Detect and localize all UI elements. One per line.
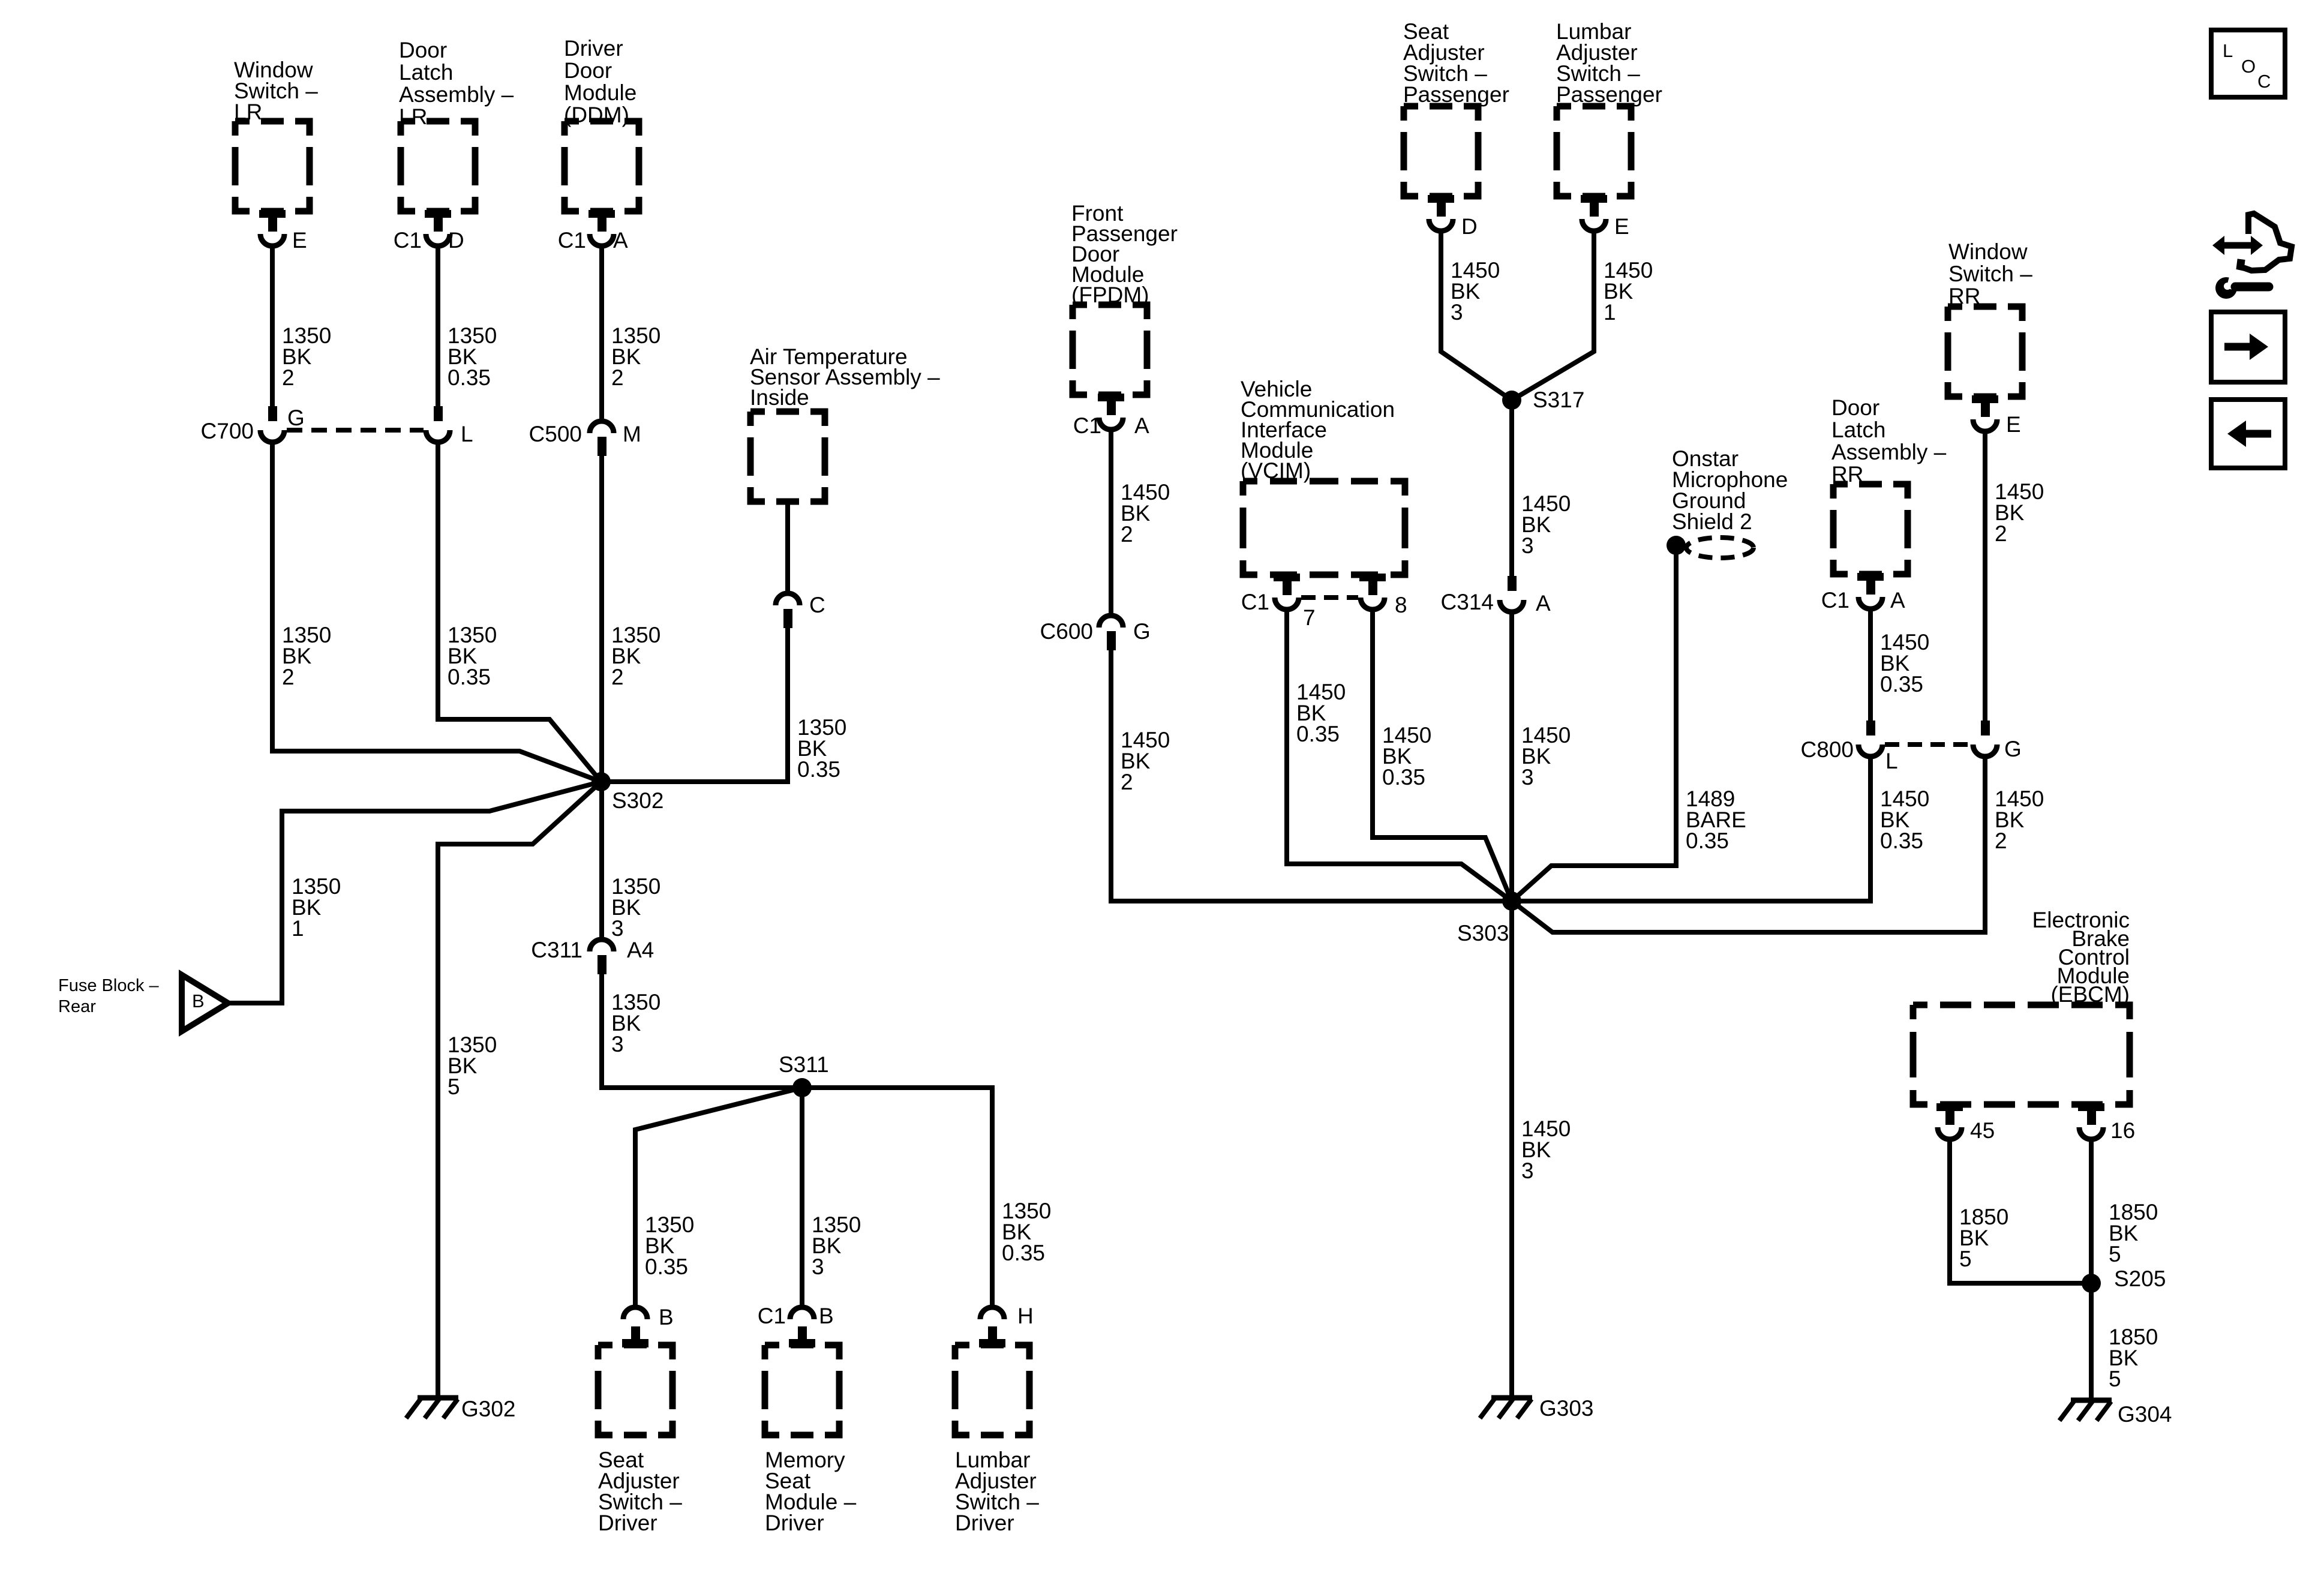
connector C600 G <box>1099 616 1123 628</box>
svg-text:Driver: Driver <box>765 1511 824 1535</box>
component box Door Latch Assembly - RR <box>1833 484 1908 574</box>
wire 1350 BK 5 (S302 to G302) <box>438 782 601 1397</box>
svg-text:B: B <box>819 1304 834 1328</box>
svg-text:3: 3 <box>611 1032 624 1056</box>
wrench icon <box>2215 277 2237 299</box>
connector pin D (Seat Adjuster Passenger) <box>1428 195 1454 203</box>
connector pin 45 (EBCM) <box>1936 1103 1963 1111</box>
svg-text:Shield 2: Shield 2 <box>1672 509 1752 534</box>
svg-text:Rear: Rear <box>58 997 96 1016</box>
connector C1 pin 7 (VCIM) <box>1274 574 1300 581</box>
svg-text:S205: S205 <box>2114 1266 2166 1291</box>
svg-text:L: L <box>461 422 473 446</box>
svg-text:C1: C1 <box>1073 413 1101 438</box>
svg-text:Latch: Latch <box>1831 418 1886 442</box>
splice S302 <box>591 772 611 791</box>
wire 1350 BK 0.35 (L to S302) <box>438 441 601 782</box>
svg-text:2: 2 <box>282 365 295 390</box>
svg-text:5: 5 <box>448 1074 460 1099</box>
connector C (air temp) <box>776 593 800 605</box>
svg-text:C600: C600 <box>1040 619 1093 644</box>
dashed link C700 <box>287 428 424 433</box>
component box Window Switch - RR <box>1948 307 2022 397</box>
LOC legend box <box>2211 30 2285 97</box>
svg-text:C1: C1 <box>1241 590 1269 614</box>
svg-text:5: 5 <box>2109 1367 2121 1391</box>
svg-text:Module: Module <box>564 80 636 105</box>
svg-text:2: 2 <box>1995 828 2007 853</box>
svg-text:1: 1 <box>1604 300 1616 325</box>
svg-text:L: L <box>1885 749 1898 773</box>
wire 1350 BK 0.35 (S311 to seat adjuster B) <box>635 1088 802 1308</box>
svg-text:3: 3 <box>1451 300 1463 325</box>
svg-text:Door: Door <box>399 38 447 62</box>
svg-text:S311: S311 <box>779 1052 829 1077</box>
svg-text:Passenger: Passenger <box>1403 82 1509 107</box>
svg-text:2: 2 <box>611 665 624 689</box>
wire 1350 BK 3 (C311 to S311) <box>602 968 802 1088</box>
connector C1 pin A (DDM) <box>588 210 615 218</box>
svg-text:3: 3 <box>1521 533 1534 558</box>
svg-text:2: 2 <box>1121 522 1133 547</box>
svg-text:Driver: Driver <box>564 36 623 61</box>
svg-text:B: B <box>659 1305 674 1329</box>
Onstar shield terminal dot <box>1667 536 1686 555</box>
wire 1350 BK 0.35 (D to L) <box>436 245 440 412</box>
connector C314 A <box>1508 576 1517 591</box>
svg-text:G: G <box>2004 737 2022 761</box>
svg-text:Passenger: Passenger <box>1556 82 1662 107</box>
svg-text:45: 45 <box>1970 1118 1995 1143</box>
svg-text:Door: Door <box>564 58 612 83</box>
connector C1 pin A (Door Latch RR) <box>1857 573 1884 581</box>
component box Door Latch Assembly - LR <box>401 121 475 211</box>
connector C800 L <box>1866 721 1875 736</box>
svg-text:2: 2 <box>282 665 295 689</box>
wire 1450 BK 0.35 (pin 8 to S303) <box>1373 610 1512 901</box>
connector pin 16 (EBCM) <box>2078 1103 2104 1111</box>
svg-text:Switch –: Switch – <box>1948 262 2032 286</box>
wire 1450 BK 0.35 (pin 7 to S303) <box>1287 610 1512 901</box>
connector C1 pin B (Memory Seat Module) <box>790 1307 814 1319</box>
svg-text:E: E <box>292 228 307 253</box>
component box Window Switch - LR <box>235 121 310 211</box>
svg-text:7: 7 <box>1303 605 1316 630</box>
svg-text:0.35: 0.35 <box>1880 828 1923 853</box>
component box DDM <box>565 121 639 211</box>
component box Seat Adjuster Switch - Driver <box>598 1345 672 1435</box>
svg-text:C500: C500 <box>529 422 582 446</box>
component box EBCM <box>1913 1005 2130 1104</box>
connector C500 M <box>590 421 614 433</box>
svg-text:Driver: Driver <box>955 1511 1014 1535</box>
svg-text:C1: C1 <box>1821 588 1849 613</box>
svg-text:E: E <box>1614 214 1629 239</box>
back arrow box <box>2211 400 2285 468</box>
wire 1350 BK 2 (E to C700) <box>270 245 275 412</box>
svg-text:2: 2 <box>1121 770 1133 794</box>
component box Lumbar Adjuster Switch - Passenger <box>1557 106 1631 196</box>
svg-text:0.35: 0.35 <box>1382 765 1425 789</box>
svg-text:0.35: 0.35 <box>1002 1241 1045 1265</box>
ground G302 <box>418 1395 458 1401</box>
wire 1450 BK 0.35 (A to C800 L) <box>1868 608 1873 727</box>
svg-text:G303: G303 <box>1539 1396 1594 1421</box>
svg-text:S317: S317 <box>1533 388 1584 412</box>
splice S317 <box>1502 391 1521 410</box>
connector C1 pin D (Door Latch LR) <box>425 210 451 218</box>
wire 1350 BK 0.35 (S311 to lumbar H) <box>802 1088 992 1308</box>
wire 1450 BK 3 (C314 to S303) <box>1509 611 1514 901</box>
connector pin E (Lumbar Adjuster Passenger) <box>1581 195 1607 203</box>
component box Lumbar Adjuster Switch - Driver <box>955 1345 1029 1435</box>
svg-text:3: 3 <box>611 916 624 941</box>
door/power icon double arrow <box>2223 242 2252 249</box>
wire 1850 BK 5 (pin 45 to S205) <box>1950 1138 2091 1283</box>
svg-text:D: D <box>1461 214 1478 239</box>
connector C1 pin A (FPDM) <box>1098 394 1124 401</box>
svg-text:Latch: Latch <box>399 60 454 85</box>
svg-text:3: 3 <box>812 1254 824 1279</box>
wire 1350 BK 2 (C700 to S302) <box>272 441 601 782</box>
svg-text:0.35: 0.35 <box>448 365 491 390</box>
connector C800 G <box>1981 721 1990 736</box>
svg-text:A: A <box>1536 591 1551 616</box>
splice S311 <box>792 1078 812 1097</box>
svg-text:B: B <box>192 990 205 1011</box>
wire 1350 BK 0.35 (C to S302) <box>601 622 788 782</box>
svg-text:C700: C700 <box>201 419 254 443</box>
svg-text:C: C <box>809 593 825 617</box>
svg-text:Window: Window <box>1948 239 2028 264</box>
svg-text:5: 5 <box>1959 1247 1972 1271</box>
wire 1850 BK 5 (pin 16 to S205) <box>2089 1138 2094 1283</box>
wire 1450 BK 2 (G to S303) <box>1512 755 1985 932</box>
svg-text:G302: G302 <box>461 1397 516 1421</box>
svg-text:0.35: 0.35 <box>448 665 491 689</box>
svg-text:G: G <box>287 406 305 430</box>
svg-text:8: 8 <box>1395 593 1407 617</box>
svg-text:3: 3 <box>1521 1158 1534 1183</box>
dashed link C800 <box>1885 742 1971 747</box>
svg-text:Assembly –: Assembly – <box>1831 440 1947 464</box>
wire 1450 BK 2 (C600 to S303) <box>1111 644 1512 901</box>
svg-text:A: A <box>1890 588 1905 613</box>
wire (air temp box to C) <box>785 502 790 595</box>
svg-text:L: L <box>2223 40 2233 61</box>
wire 1450 BK 3 (S317 to C314) <box>1509 400 1514 578</box>
svg-text:Driver: Driver <box>598 1511 657 1535</box>
svg-text:C1: C1 <box>558 228 586 253</box>
wire 1450 BK 0.35 (L to S303) <box>1512 755 1870 901</box>
svg-text:0.35: 0.35 <box>1296 722 1340 746</box>
wire 1450 BK 3 (S303 to G303) <box>1509 901 1514 1397</box>
svg-text:H: H <box>1017 1304 1034 1328</box>
wire 1450 BK 3 (D to S317) <box>1441 230 1512 400</box>
svg-text:0.35: 0.35 <box>645 1254 688 1279</box>
connector pin E (Window Switch RR) <box>1972 395 1998 403</box>
wire 1489 BARE 0.35 (shield to S303) <box>1512 545 1676 901</box>
component box Air Temperature Sensor Assembly - Inside <box>750 412 825 502</box>
svg-text:3: 3 <box>1521 765 1534 789</box>
svg-text:2: 2 <box>1995 521 2007 546</box>
svg-text:O: O <box>2241 56 2256 77</box>
svg-text:1: 1 <box>292 916 304 941</box>
svg-text:16: 16 <box>2110 1118 2135 1143</box>
svg-text:Assembly –: Assembly – <box>399 82 514 107</box>
svg-text:A: A <box>613 228 628 253</box>
dashed link VCIM pins <box>1301 595 1358 600</box>
connector C700 G <box>268 406 277 421</box>
svg-text:C311: C311 <box>531 938 582 962</box>
connector pin B (Seat Adjuster Switch Driver) <box>623 1307 647 1319</box>
wire 1450 BK 1 (E to S317) <box>1512 230 1594 400</box>
wire 1450 BK 2 (A to C600) <box>1109 428 1113 617</box>
svg-text:E: E <box>2006 412 2021 437</box>
svg-text:C: C <box>2257 71 2271 92</box>
wire 1350 BK 1 (fuse block to S302) <box>228 782 601 1003</box>
component box Memory Seat Module - Driver <box>765 1345 839 1435</box>
connector pin 8 (VCIM) <box>1359 574 1386 581</box>
wire 1850 BK 5 (S205 to G304) <box>2089 1283 2094 1400</box>
ground G303 <box>1491 1395 1532 1401</box>
svg-text:Door: Door <box>1831 395 1879 420</box>
wire 1450 BK 2 (E to C800 G) <box>1983 430 1987 727</box>
wire 1350 BK 2 (A to C500) <box>599 245 604 422</box>
svg-text:0.35: 0.35 <box>797 757 840 782</box>
svg-text:0.35: 0.35 <box>1880 672 1923 697</box>
svg-text:0.35: 0.35 <box>1686 828 1729 853</box>
svg-text:G: G <box>1133 619 1151 644</box>
svg-text:C800: C800 <box>1801 737 1854 762</box>
component box Seat Adjuster Switch - Passenger <box>1404 106 1478 196</box>
svg-text:S303: S303 <box>1457 921 1509 945</box>
fuse block terminal B triangle <box>182 975 228 1031</box>
splice S205 <box>2082 1274 2101 1293</box>
component box FPDM <box>1073 305 1147 395</box>
forward arrow box <box>2211 312 2285 382</box>
svg-text:G304: G304 <box>2118 1402 2172 1427</box>
connector L (C700) <box>434 406 443 421</box>
svg-text:C1: C1 <box>758 1304 786 1328</box>
Onstar shield dashed ellipse <box>1686 538 1753 558</box>
wire 1350 BK 2 (C500 to S302 to C311) <box>599 450 604 941</box>
connector pin E (Window Switch LR) <box>259 210 286 218</box>
ground G304 <box>2071 1398 2112 1403</box>
svg-text:C314: C314 <box>1441 590 1494 614</box>
connector pin H (Lumbar Adjuster Switch Driver) <box>980 1307 1004 1319</box>
svg-text:Inside: Inside <box>750 385 809 410</box>
svg-text:C1: C1 <box>394 228 422 253</box>
svg-text:S302: S302 <box>612 788 663 813</box>
splice S303 <box>1502 891 1521 911</box>
svg-text:A: A <box>1134 413 1149 438</box>
connector C311 A4 <box>590 939 614 951</box>
svg-text:2: 2 <box>611 365 624 390</box>
component box VCIM <box>1243 481 1405 575</box>
door outline icon <box>2239 214 2292 271</box>
svg-text:5: 5 <box>2109 1242 2121 1266</box>
svg-text:Fuse Block –: Fuse Block – <box>58 976 159 995</box>
svg-text:D: D <box>448 228 464 253</box>
svg-text:A4: A4 <box>627 938 654 962</box>
wire 1350 BK 3 (S311 to memory seat B) <box>800 1088 804 1308</box>
svg-text:M: M <box>623 422 641 446</box>
